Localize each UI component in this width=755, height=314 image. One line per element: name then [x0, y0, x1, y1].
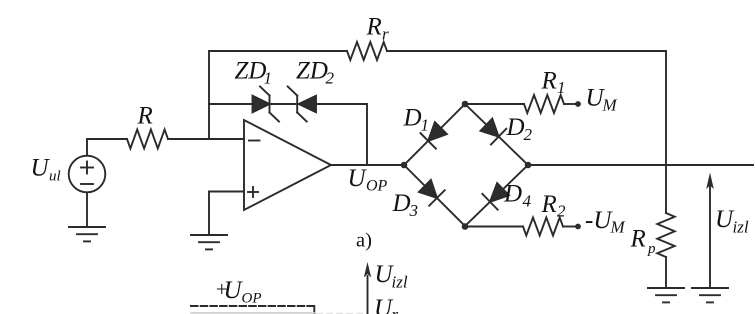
- node: bridge bottom: [462, 223, 469, 230]
- resistor Rr zigzag: [347, 42, 387, 60]
- svg-text:4: 4: [523, 192, 532, 211]
- label U_izl axis: [375, 261, 408, 292]
- svg-text:r: r: [392, 305, 399, 314]
- svg-text:D: D: [392, 190, 411, 217]
- label U_ul: [31, 155, 61, 185]
- zener diode ZD2: [288, 87, 316, 122]
- svg-text:D: D: [403, 105, 422, 132]
- svg-text:1: 1: [421, 116, 430, 135]
- svg-text:R: R: [541, 68, 557, 95]
- wire: R2 to -U_M terminal: [563, 226, 576, 228]
- svg-text:D: D: [503, 181, 522, 208]
- svg-text:p: p: [647, 241, 656, 257]
- svg-text:1: 1: [557, 78, 566, 97]
- svg-text:2: 2: [524, 125, 533, 144]
- resistor R1 zigzag: [524, 95, 564, 113]
- svg-text:-U: -U: [585, 207, 613, 234]
- svg-text:a): a): [356, 230, 372, 252]
- svg-text:U: U: [348, 165, 368, 192]
- node: bridge top: [462, 101, 469, 108]
- label ZD_2: [296, 58, 335, 88]
- resistor R zigzag: [127, 130, 168, 149]
- diode D1: [420, 122, 447, 149]
- svg-text:izl: izl: [392, 273, 408, 292]
- axis arrow of graph b: [364, 262, 371, 314]
- label D_3: [392, 190, 419, 220]
- wire: source bottom to ground: [86, 193, 88, 228]
- ground: under op-amp: [191, 235, 227, 249]
- dashed level +U_OP: [191, 305, 313, 307]
- wire: bridge right node output line: [528, 164, 753, 166]
- svg-text:R: R: [366, 14, 382, 41]
- svg-text:ZD: ZD: [296, 58, 328, 85]
- label -U_M: [585, 207, 626, 237]
- ground: under U_izl arrow: [692, 288, 728, 302]
- svg-text:M: M: [602, 96, 618, 115]
- wire: top feedback left segment: [209, 51, 347, 139]
- arrow U_izl output voltage: [706, 173, 714, 289]
- terminal: U_M: [575, 101, 581, 107]
- diode D2: [481, 119, 507, 145]
- label ZD_1: [235, 58, 273, 88]
- svg-text:3: 3: [409, 201, 419, 220]
- label D_4: [503, 181, 532, 211]
- diode bridge edges: [404, 104, 528, 226]
- wire: op-amp output to bridge left node: [331, 164, 404, 166]
- diode D3: [419, 180, 445, 206]
- svg-text:OP: OP: [366, 178, 388, 195]
- svg-text:ZD: ZD: [235, 58, 267, 85]
- label D_1: [403, 105, 430, 135]
- tick at end of dashed level: [313, 306, 315, 314]
- svg-text:izl: izl: [733, 218, 749, 237]
- voltage source U_ul: [69, 156, 106, 193]
- zener diode ZD1: [253, 87, 280, 122]
- wire: bridge top node to R1: [465, 103, 524, 105]
- resistor R2 zigzag: [523, 218, 563, 236]
- svg-text:OP: OP: [242, 291, 262, 307]
- terminal: -U_M: [575, 224, 581, 230]
- label U_izl right: [715, 206, 749, 237]
- label R_p: [630, 226, 657, 258]
- label U_r axis: [374, 295, 399, 314]
- label +U_OP: [215, 277, 262, 307]
- label R_r: [366, 14, 390, 44]
- wire: Rp to ground: [665, 257, 667, 288]
- svg-text:R: R: [137, 103, 153, 130]
- svg-text:2: 2: [326, 69, 335, 88]
- wire: between zener diodes: [270, 103, 298, 105]
- dashed trailing line (clipped at bottom): [317, 313, 363, 314]
- svg-text:1: 1: [264, 69, 273, 88]
- label U_M: [586, 85, 618, 115]
- svg-text:R: R: [541, 191, 557, 218]
- resistor Rp zigzag: [657, 213, 674, 257]
- wire: vertical down to Rp: [665, 165, 667, 213]
- label U_OP: [348, 165, 388, 195]
- diode D4: [482, 183, 509, 210]
- svg-text:U: U: [224, 277, 244, 304]
- svg-text:r: r: [382, 25, 389, 44]
- svg-text:M: M: [610, 218, 626, 237]
- svg-text:U: U: [31, 155, 51, 182]
- waveform line (clipped at bottom): [191, 312, 314, 314]
- svg-text:D: D: [506, 114, 525, 141]
- wire: source top to input: [87, 139, 127, 156]
- wire: R to op-amp inverting input: [168, 138, 244, 140]
- label R_1: [541, 68, 566, 98]
- node: bridge left: [401, 162, 408, 169]
- ground: under source: [69, 227, 105, 241]
- ground: under Rp: [648, 288, 684, 302]
- op-amp U1: [244, 120, 331, 210]
- svg-text:ul: ul: [49, 169, 61, 185]
- wire: zener feedback horizontal left: [209, 103, 253, 105]
- label R_2: [541, 191, 567, 221]
- wire: bridge bottom node to R2: [465, 226, 523, 228]
- svg-text:R: R: [630, 226, 646, 253]
- svg-text:2: 2: [557, 202, 566, 221]
- wire: top feedback right segment: [387, 51, 666, 165]
- wire: non-inverting input to ground: [209, 192, 244, 236]
- wire: zener feedback right and drop to output: [316, 104, 367, 165]
- node: bridge right: [525, 162, 532, 169]
- wire: R1 to U_M terminal: [564, 103, 576, 105]
- label D_2: [506, 114, 533, 144]
